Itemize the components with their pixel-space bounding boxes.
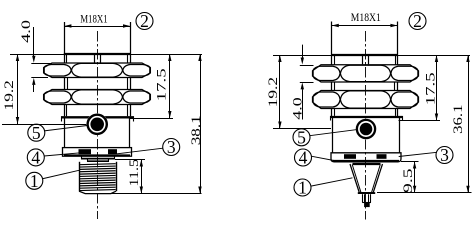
svg-text:3: 3 (440, 145, 449, 165)
svg-text:1: 1 (298, 178, 307, 198)
svg-text:19.2: 19.2 (2, 80, 16, 110)
svg-text:9.5: 9.5 (401, 168, 415, 193)
svg-text:M18X1: M18X1 (351, 10, 381, 24)
svg-text:2: 2 (413, 11, 422, 31)
svg-text:17.5: 17.5 (155, 68, 169, 101)
svg-text:11.5: 11.5 (127, 159, 141, 187)
svg-text:M18X1: M18X1 (80, 11, 108, 25)
svg-text:5: 5 (297, 127, 306, 147)
svg-text:4: 4 (31, 148, 40, 168)
svg-text:19.2: 19.2 (266, 77, 280, 107)
svg-text:2: 2 (140, 11, 149, 31)
svg-text:38.1: 38.1 (189, 115, 203, 145)
svg-text:5: 5 (32, 123, 41, 143)
svg-text:4: 4 (299, 148, 308, 168)
svg-text:36.1: 36.1 (451, 105, 465, 134)
svg-text:17.5: 17.5 (424, 72, 438, 105)
svg-text:1: 1 (30, 171, 39, 191)
svg-text:4.0: 4.0 (19, 20, 33, 43)
svg-text:3: 3 (167, 137, 176, 157)
